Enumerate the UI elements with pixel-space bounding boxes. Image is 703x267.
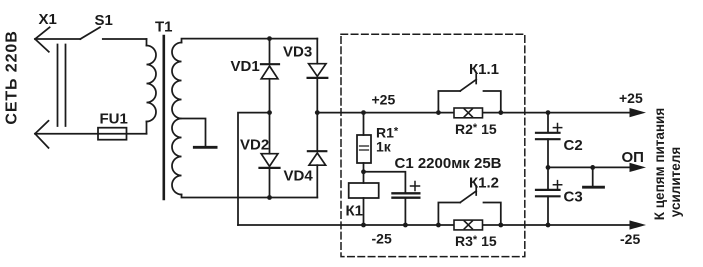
- svg-text:VD2: VD2: [240, 137, 269, 154]
- label 1к: [376, 139, 392, 155]
- node dot: C2-C3 mid: [546, 165, 551, 170]
- wire C3 bottom lead: [547, 196, 549, 225]
- label +25 (output): [619, 90, 643, 106]
- wire secondary top to AC1: [182, 39, 318, 43]
- label VD4: [284, 168, 314, 185]
- relay coil K1: [349, 183, 379, 198]
- label X1: [39, 11, 57, 28]
- svg-text:S1: S1: [95, 12, 113, 29]
- connector X1 arrow top pin: [35, 27, 50, 52]
- label ОП: [622, 149, 644, 166]
- wire VD4 cathode lead: [316, 113, 318, 151]
- wire C1 top lead: [364, 172, 406, 193]
- svg-text:VD4: VD4: [284, 168, 314, 185]
- svg-text:FU1: FU1: [100, 111, 128, 128]
- svg-text:усилителя: усилителя: [668, 147, 683, 217]
- wire secondary bottom to AC2: [182, 195, 318, 198]
- node dot: R1/K1/C1 junction: [361, 169, 366, 174]
- node dot: K1.2 left: [436, 223, 441, 228]
- wire top lead from X1 to switch: [35, 38, 80, 40]
- capacitor C2: [536, 124, 562, 140]
- resistor R3 (fusible): [454, 220, 483, 230]
- dashed enclosure (relay unit): [341, 34, 525, 256]
- transformer T1 primary winding: [147, 46, 157, 122]
- node dot: C3 bottom: [546, 223, 551, 228]
- svg-text:С2: С2: [564, 137, 583, 154]
- wire VD1 anode to VD2 anode: [269, 79, 271, 154]
- wire primary top drop: [146, 39, 148, 46]
- label R1*: [376, 125, 399, 141]
- fuse FU1: [98, 128, 127, 140]
- wire center tap: [182, 119, 206, 147]
- svg-text:С3: С3: [564, 189, 583, 206]
- label C1 2200мк 25В: [395, 155, 502, 172]
- node dot: AC1/VD1: [267, 36, 272, 41]
- node dot: minus/VD1-VD2: [267, 110, 272, 115]
- transformer T1 core: [163, 36, 166, 199]
- node dot: K1.1 right: [498, 110, 503, 115]
- node dot: C1 bottom: [403, 223, 408, 228]
- transformer T1 secondary winding: [172, 43, 182, 195]
- wire C2 top lead: [547, 113, 549, 132]
- svg-text:R2* 15: R2* 15: [455, 121, 497, 137]
- svg-text:СЕТЬ 220В: СЕТЬ 220В: [4, 30, 21, 124]
- wire -25 rail: [238, 224, 631, 226]
- svg-text:ОП: ОП: [622, 149, 644, 166]
- wire primary bottom drop: [146, 122, 148, 134]
- svg-text:R3* 15: R3* 15: [455, 233, 497, 249]
- label усилителя: [668, 147, 683, 217]
- svg-text:T1: T1: [155, 19, 173, 36]
- mains cord lines: [58, 45, 66, 127]
- svg-text:-25: -25: [620, 231, 640, 247]
- svg-text:1к: 1к: [376, 139, 392, 155]
- label R2* 15: [455, 121, 497, 137]
- node dot: ground tap on ОП: [590, 165, 595, 170]
- capacitor C1: [393, 182, 420, 198]
- svg-text:VD1: VD1: [231, 58, 260, 75]
- wire VD2 cathode to AC2: [269, 168, 271, 198]
- wire VD3 cathode to plus node: [316, 78, 318, 113]
- svg-text:-25: -25: [372, 231, 392, 247]
- node dot: C2 top: [546, 110, 551, 115]
- resistor R1: [357, 135, 371, 163]
- label +25 (inside box): [372, 92, 396, 108]
- diode VD1: [261, 64, 279, 79]
- label -25 (inside box): [372, 231, 392, 247]
- wire R1 bottom to K1 coil: [363, 163, 365, 183]
- node dot: K1.2 right: [498, 223, 503, 228]
- ground (transformer center tap): [194, 146, 216, 149]
- node dot: K1 bottom: [361, 223, 366, 228]
- label C3: [564, 189, 583, 206]
- svg-text:К1: К1: [346, 203, 364, 220]
- label VD1: [231, 58, 260, 75]
- svg-text:С1 2200мк 25В: С1 2200мк 25В: [395, 155, 502, 172]
- label VD3: [283, 43, 312, 60]
- ground (ОП common): [584, 167, 604, 187]
- switch S1: [80, 27, 146, 39]
- wire bottom lead through fuse: [35, 133, 147, 135]
- resistor R2 (fusible): [454, 108, 483, 118]
- output arrow -25: [630, 220, 647, 229]
- capacitor C3: [536, 181, 562, 197]
- diode VD4: [308, 151, 326, 165]
- wire +25 rail: [317, 112, 631, 114]
- label C2: [564, 137, 583, 154]
- label К1.2: [469, 175, 499, 192]
- node dot: AC2/VD2: [267, 195, 272, 200]
- wire C1 bottom lead: [404, 198, 406, 225]
- label СЕТЬ 220В: [4, 30, 21, 124]
- label S1: [95, 12, 113, 29]
- label К цепям питания: [652, 108, 667, 220]
- svg-text:VD3: VD3: [283, 43, 312, 60]
- label К1.1: [469, 61, 499, 78]
- relay contact K1.2: [438, 186, 500, 225]
- wire R1 top lead: [363, 113, 365, 135]
- label -25 (output): [620, 231, 640, 247]
- node dot: R1 top: [361, 110, 366, 115]
- svg-text:К1.1: К1.1: [469, 61, 499, 78]
- wire ОП rail: [548, 166, 631, 168]
- node dot: plus/VD3-VD4: [315, 110, 320, 115]
- diode VD2: [260, 154, 280, 168]
- svg-text:К цепям питания: К цепям питания: [652, 108, 667, 220]
- wire VD3 anode lead: [316, 39, 318, 64]
- relay contact K1.1: [438, 75, 500, 113]
- output arrow ОП: [630, 163, 647, 172]
- label K1: [346, 203, 364, 220]
- label FU1: [100, 111, 128, 128]
- wire C2 bottom to mid node: [547, 139, 549, 167]
- wire VD4 anode to AC2: [316, 165, 318, 197]
- svg-text:+25: +25: [619, 90, 643, 106]
- svg-text:+25: +25: [372, 92, 396, 108]
- diode VD3: [308, 64, 328, 78]
- label VD2: [240, 137, 269, 154]
- label T1: [155, 19, 173, 36]
- node dot: K1.1 left: [436, 110, 441, 115]
- output arrow +25: [630, 108, 647, 117]
- wire VD1 cathode lead: [269, 39, 271, 64]
- wire C3 top lead: [547, 167, 549, 189]
- label R3* 15: [455, 233, 497, 249]
- svg-text:X1: X1: [39, 11, 57, 28]
- wire K1 coil bottom lead: [363, 198, 365, 225]
- wire minus node branch: [238, 113, 270, 225]
- svg-text:К1.2: К1.2: [469, 175, 499, 192]
- connector X1 arrow bottom pin: [35, 121, 49, 148]
